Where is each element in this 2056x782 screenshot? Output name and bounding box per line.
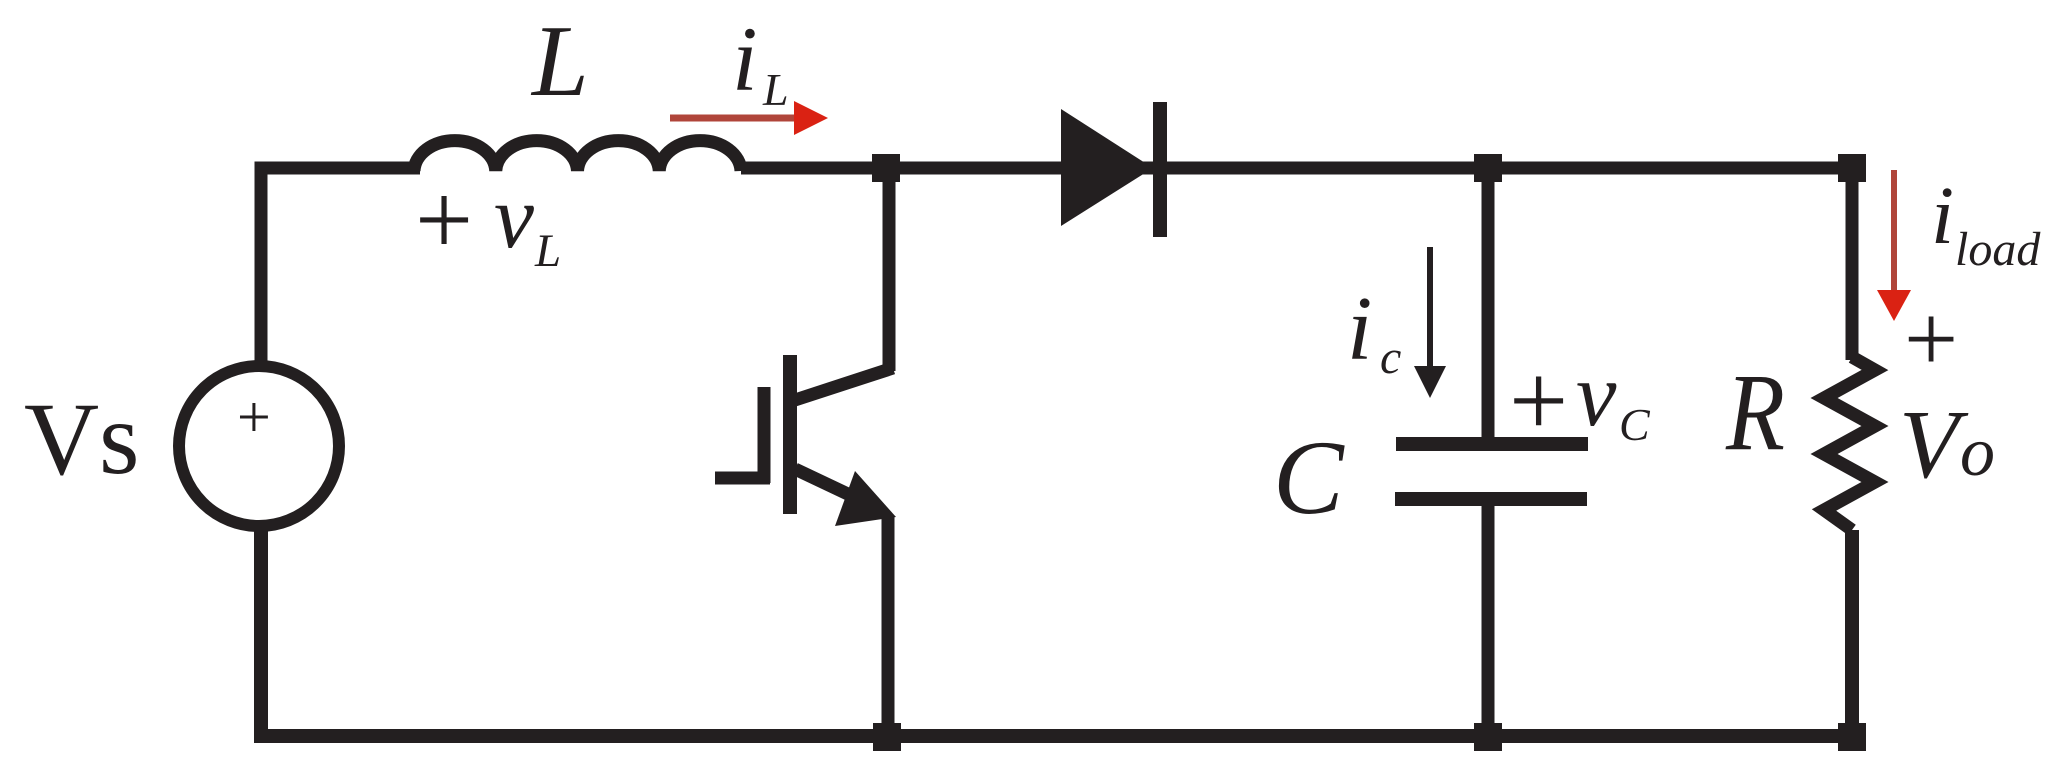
svg-text:C: C: [1619, 399, 1651, 450]
svg-text:+: +: [1509, 342, 1568, 459]
inductor L: [414, 141, 741, 171]
svg-text:+: +: [1904, 285, 1958, 392]
arrow iload head: [1877, 290, 1911, 321]
node E junction bottom capacitor: [1474, 723, 1502, 751]
wire top-left: source top to inductor: [261, 168, 420, 361]
node C junction top resistor: [1838, 154, 1866, 182]
resistor R zigzag: [1824, 357, 1875, 530]
svg-text:V: V: [1899, 391, 1969, 499]
svg-text:v: v: [494, 168, 534, 267]
diode cathode bar: [1153, 102, 1167, 237]
svg-text:R: R: [1725, 351, 1785, 473]
voltage source Vs: [179, 366, 339, 526]
svg-text:i: i: [732, 8, 758, 110]
svg-text:L: L: [530, 5, 589, 118]
svg-text:i: i: [1931, 169, 1954, 261]
wire left bottom: source bottom to ground rail: [261, 530, 1852, 736]
node F junction bottom resistor: [1838, 723, 1866, 751]
svg-text:+: +: [415, 163, 473, 277]
transistor Q collector wire: [883, 168, 896, 371]
capacitor C bottom plate: [1395, 492, 1587, 506]
svg-text:c: c: [1380, 331, 1401, 384]
capacitor C bottom wire: [1482, 503, 1495, 737]
transistor Q collector diagonal: [795, 368, 893, 400]
capacitor C top plate: [1396, 437, 1588, 451]
transistor Q emitter wire: [882, 517, 895, 737]
svg-text:s: s: [99, 381, 139, 496]
transistor Q gate lead: [715, 472, 770, 485]
transistor Q emitter diagonal: [795, 469, 852, 496]
arrow iL head: [794, 101, 828, 135]
capacitor C top wire: [1482, 168, 1495, 440]
transistor Q body bar: [783, 355, 797, 514]
svg-text:i: i: [1347, 278, 1372, 379]
diode D triangle: [1061, 109, 1153, 226]
transistor Q gate bar: [758, 387, 771, 483]
svg-text:C: C: [1273, 419, 1345, 536]
wire top: inductor to diode to right corner: [741, 168, 1852, 360]
node A junction top IGBT: [872, 154, 900, 182]
arrow ic shaft: [1427, 247, 1433, 370]
arrow ic head: [1414, 366, 1446, 398]
svg-text:L: L: [534, 225, 561, 277]
arrow iL shaft: [670, 115, 797, 122]
node B junction top capacitor: [1474, 154, 1502, 182]
node D junction bottom IGBT: [873, 723, 901, 751]
svg-text:o: o: [1960, 414, 1995, 491]
arrow iload shaft: [1891, 170, 1897, 292]
svg-text:+: +: [237, 384, 271, 450]
svg-text:V: V: [24, 382, 99, 497]
svg-text:load: load: [1955, 223, 2041, 276]
svg-text:v: v: [1576, 344, 1617, 445]
transistor Q emitter arrowhead: [835, 471, 896, 526]
svg-text:L: L: [762, 64, 789, 115]
